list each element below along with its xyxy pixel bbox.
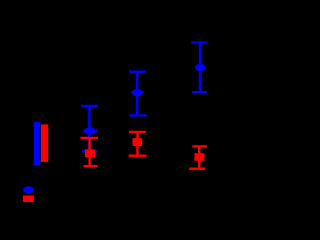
red marker group3: [133, 138, 143, 146]
red errorbar group2 bottom cap: [83, 165, 97, 167]
red series (square markers): [23, 124, 208, 204]
red errorbar group2 vline: [88, 138, 90, 166]
red marker group1 (bottom left, clipped): [23, 196, 34, 205]
blue errorbar group4 bottom cap: [192, 91, 207, 93]
blue errorbar group4 vline: [199, 43, 201, 93]
blue xerr group3: [131, 91, 143, 94]
red errorbar group4 vline: [198, 146, 200, 168]
blue marker group2: [84, 127, 95, 134]
red errorbar group4 bottom cap: [189, 168, 205, 170]
blue marker group1 (bottom left): [23, 186, 34, 193]
red errorbar group3 vline: [136, 132, 138, 156]
blue marker group3: [132, 89, 143, 96]
blue errorbar group3 vline: [136, 72, 138, 116]
red errorbar group2 top cap: [81, 137, 99, 139]
blue thick bar: [34, 122, 41, 166]
blue marker group4: [195, 64, 206, 71]
blue xerr group2: [83, 130, 97, 133]
blue errorbar group4 top cap: [191, 41, 207, 43]
blue errorbar group3 bottom cap: [129, 114, 147, 116]
red marker group4: [194, 153, 204, 161]
red thick bar: [41, 124, 48, 161]
red errorbar group4 top cap: [192, 145, 207, 147]
blue errorbar group2 top cap: [81, 105, 98, 107]
red errorbar group3 bottom cap: [129, 155, 147, 157]
blue errorbar group2 bottom cap: [82, 150, 98, 152]
red errorbar group3 top cap: [129, 131, 146, 133]
red marker group2: [85, 149, 95, 157]
blue errorbar group2 vline: [88, 106, 90, 151]
blue series (circle markers): [23, 43, 207, 194]
blue errorbar group3 top cap: [129, 71, 146, 73]
